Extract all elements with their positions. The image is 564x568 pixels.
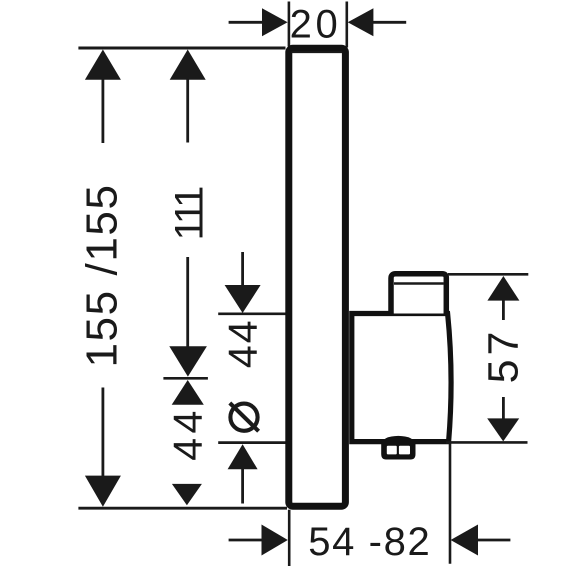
dim 155/155 bottom arrow	[85, 476, 121, 507]
dim 20 right arrow	[348, 8, 407, 36]
extension line right of dim 20	[345, 2, 348, 48]
top extension line for 155/111	[78, 47, 285, 50]
dim 44 left bottom arrow	[172, 484, 202, 505]
dim 57 down arrow	[487, 418, 519, 441]
extension line left of dim 20	[288, 2, 291, 47]
dim 44 middle: upper line	[241, 252, 244, 286]
bottom right extension line (54-82)	[449, 443, 452, 564]
svg-text:155 /155: 155 /155	[78, 183, 127, 367]
dim 44 middle: bottom tick	[218, 441, 285, 444]
svg-text:44: 44	[220, 318, 266, 368]
diamond junction: up arrowhead	[172, 380, 204, 405]
valve body (side view)	[352, 314, 451, 442]
dim 44 middle: top tick	[218, 312, 285, 315]
bottom extension line for 155/44	[78, 507, 287, 510]
plate inner top edge line	[292, 51, 343, 53]
svg-text:57: 57	[480, 328, 528, 384]
dim 57 lower stub line	[502, 397, 505, 419]
svg-text:20: 20	[290, 3, 342, 47]
dim 44 middle: lower line	[241, 469, 244, 504]
svg-text:44: 44	[165, 406, 211, 461]
dim 44 middle: up arrow	[228, 444, 258, 469]
57 top extension line	[448, 273, 528, 276]
knob cap rim line	[394, 282, 444, 285]
svg-text:111: 111	[168, 187, 212, 241]
diamond junction: down arrowhead	[169, 346, 207, 376]
dim 20 left arrow	[229, 8, 288, 36]
dim 57 upper stub line	[502, 300, 505, 320]
dim 111 top arrow	[170, 50, 206, 80]
foot window right	[399, 446, 410, 455]
dim 155/155 top arrow	[85, 50, 121, 80]
dim 54-82 left arrow	[229, 525, 288, 556]
knob cap	[391, 274, 446, 314]
dim 111 line upper segment	[186, 78, 189, 143]
dim 44 middle: down arrow	[225, 285, 261, 313]
diamond junction: tick line	[163, 377, 208, 380]
dim 54-82 right arrow	[451, 525, 511, 556]
foot window left	[387, 446, 397, 455]
mounting foot / clip	[381, 436, 415, 460]
escutcheon plate (side view)	[289, 48, 346, 506]
bottom left extension line (54-82)	[288, 510, 291, 566]
dim 155/155 line upper segment	[102, 78, 105, 143]
57 bottom extension line	[446, 441, 528, 444]
diameter symbol	[230, 403, 259, 431]
dim 57 up arrow	[487, 276, 519, 301]
dim 155/155 line lower segment	[102, 388, 105, 478]
dim 111 line lower segment	[186, 257, 189, 347]
svg-text:54 -82: 54 -82	[308, 520, 431, 564]
